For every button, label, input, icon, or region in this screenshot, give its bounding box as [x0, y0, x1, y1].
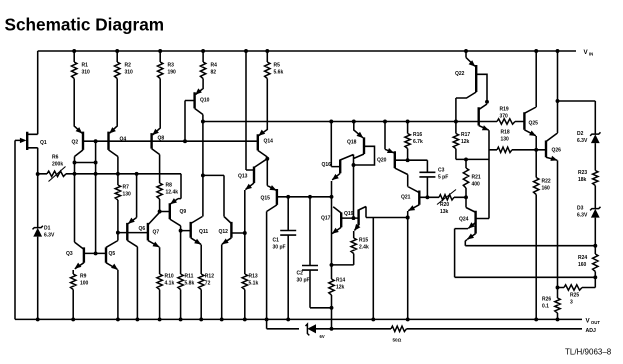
svg-text:R6: R6 [52, 155, 59, 161]
svg-text:160: 160 [578, 262, 587, 268]
svg-text:Q10: Q10 [200, 98, 210, 104]
svg-text:IN: IN [589, 51, 593, 56]
svg-text:200k: 200k [52, 162, 63, 168]
svg-text:R20: R20 [440, 202, 449, 208]
svg-text:R1: R1 [82, 63, 89, 69]
svg-text:400: 400 [472, 182, 481, 188]
svg-text:R17: R17 [461, 132, 470, 138]
svg-text:5.8k: 5.8k [185, 281, 195, 287]
svg-text:5.6k: 5.6k [274, 70, 284, 76]
svg-text:R23: R23 [578, 170, 587, 176]
svg-text:R26: R26 [542, 297, 551, 303]
svg-text:370: 370 [500, 114, 509, 120]
svg-text:Q1: Q1 [40, 140, 47, 146]
svg-text:R9: R9 [80, 274, 87, 280]
svg-text:100: 100 [80, 281, 89, 287]
svg-text:Q2: Q2 [72, 140, 79, 146]
svg-text:C2: C2 [297, 271, 304, 277]
svg-text:R22: R22 [542, 179, 551, 185]
svg-text:Q15: Q15 [261, 196, 271, 202]
svg-text:4.1k: 4.1k [165, 281, 175, 287]
svg-text:R14: R14 [336, 278, 345, 284]
svg-text:13k: 13k [440, 209, 449, 215]
svg-text:30 pF: 30 pF [273, 245, 286, 251]
svg-text:R16: R16 [413, 132, 422, 138]
svg-text:R4: R4 [211, 63, 218, 69]
svg-text:5.1k: 5.1k [249, 281, 259, 287]
svg-text:Q5: Q5 [109, 251, 116, 257]
svg-text:0.1: 0.1 [542, 304, 549, 310]
svg-text:82: 82 [211, 70, 217, 76]
svg-text:Q14: Q14 [264, 139, 274, 145]
svg-text:12k: 12k [336, 285, 345, 291]
svg-text:Q16: Q16 [322, 162, 332, 168]
svg-text:6.3V: 6.3V [44, 233, 55, 239]
svg-text:3: 3 [570, 300, 573, 306]
svg-text:5 pF: 5 pF [438, 175, 448, 181]
svg-text:Q11: Q11 [199, 229, 208, 235]
svg-text:C3: C3 [438, 168, 445, 174]
svg-text:Q20: Q20 [377, 158, 387, 164]
svg-text:R2: R2 [125, 63, 132, 69]
svg-text:72: 72 [205, 281, 211, 287]
svg-text:Q17: Q17 [321, 216, 331, 222]
svg-text:130: 130 [123, 192, 132, 198]
svg-text:12.4k: 12.4k [166, 190, 179, 196]
svg-text:Q19: Q19 [344, 211, 354, 217]
svg-text:R5: R5 [274, 63, 281, 69]
svg-text:R19: R19 [500, 107, 509, 113]
svg-text:R21: R21 [472, 175, 481, 181]
svg-text:R25: R25 [570, 293, 579, 299]
svg-text:Q24: Q24 [459, 217, 469, 223]
svg-text:6.3V: 6.3V [577, 138, 588, 144]
svg-text:ADJ: ADJ [586, 328, 596, 334]
svg-text:D3: D3 [577, 206, 584, 212]
svg-text:Q3: Q3 [66, 251, 73, 257]
svg-text:130: 130 [501, 137, 510, 143]
svg-text:Q4: Q4 [120, 137, 127, 143]
svg-text:18k: 18k [578, 177, 587, 183]
svg-text:50Ω: 50Ω [393, 338, 402, 343]
svg-text:Schematic Diagram: Schematic Diagram [5, 15, 165, 35]
svg-text:Q22: Q22 [455, 71, 465, 77]
svg-text:Q9: Q9 [180, 209, 187, 215]
svg-text:D2: D2 [577, 131, 584, 137]
svg-text:R11: R11 [185, 274, 194, 280]
svg-text:Q26: Q26 [552, 148, 562, 154]
svg-text:R24: R24 [578, 255, 587, 261]
svg-text:Q6: Q6 [139, 226, 146, 232]
svg-text:2.4k: 2.4k [359, 245, 369, 251]
svg-text:R12: R12 [205, 274, 214, 280]
svg-text:6.7k: 6.7k [413, 139, 423, 145]
svg-text:6.3V: 6.3V [577, 213, 588, 219]
svg-text:310: 310 [125, 70, 134, 76]
svg-text:6V: 6V [320, 334, 325, 339]
svg-text:Q13: Q13 [238, 174, 248, 180]
svg-text:30 pF: 30 pF [297, 278, 310, 284]
svg-text:TL/H/9063–8: TL/H/9063–8 [565, 348, 612, 357]
svg-text:12k: 12k [461, 139, 470, 145]
svg-text:Q21: Q21 [401, 195, 411, 201]
svg-text:C1: C1 [273, 238, 280, 244]
svg-text:Q7: Q7 [153, 230, 160, 236]
svg-text:R18: R18 [501, 130, 510, 136]
svg-text:R8: R8 [166, 183, 173, 189]
svg-text:Q8: Q8 [158, 136, 165, 142]
svg-text:D1: D1 [44, 226, 51, 232]
svg-text:R15: R15 [359, 238, 368, 244]
svg-text:R10: R10 [165, 274, 174, 280]
svg-text:310: 310 [82, 70, 91, 76]
svg-text:Q18: Q18 [347, 140, 357, 146]
svg-text:Q25: Q25 [529, 121, 539, 127]
svg-text:190: 190 [168, 70, 177, 76]
svg-text:Q12: Q12 [219, 229, 229, 235]
svg-text:R3: R3 [168, 63, 175, 69]
svg-text:R7: R7 [123, 185, 130, 191]
svg-text:R13: R13 [249, 274, 258, 280]
svg-text:OUT: OUT [591, 320, 600, 325]
svg-text:160: 160 [542, 186, 551, 192]
